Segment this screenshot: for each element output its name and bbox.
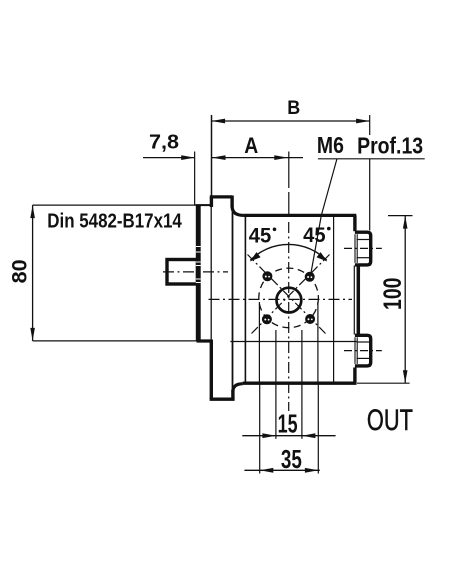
svg-text:45: 45 [303, 223, 326, 247]
svg-text:A: A [244, 133, 258, 158]
svg-text:B: B [287, 98, 300, 119]
svg-text:15: 15 [278, 409, 298, 439]
svg-text:35: 35 [281, 444, 302, 474]
svg-text:Prof.13: Prof.13 [357, 132, 423, 158]
svg-text:Din 5482-B17x14: Din 5482-B17x14 [47, 211, 182, 233]
svg-text:M6: M6 [317, 132, 344, 158]
svg-text:OUT: OUT [367, 404, 413, 437]
svg-text:100: 100 [379, 278, 407, 311]
svg-text:45: 45 [249, 224, 272, 248]
svg-text:7,8: 7,8 [149, 131, 179, 154]
svg-text:80: 80 [9, 259, 32, 283]
